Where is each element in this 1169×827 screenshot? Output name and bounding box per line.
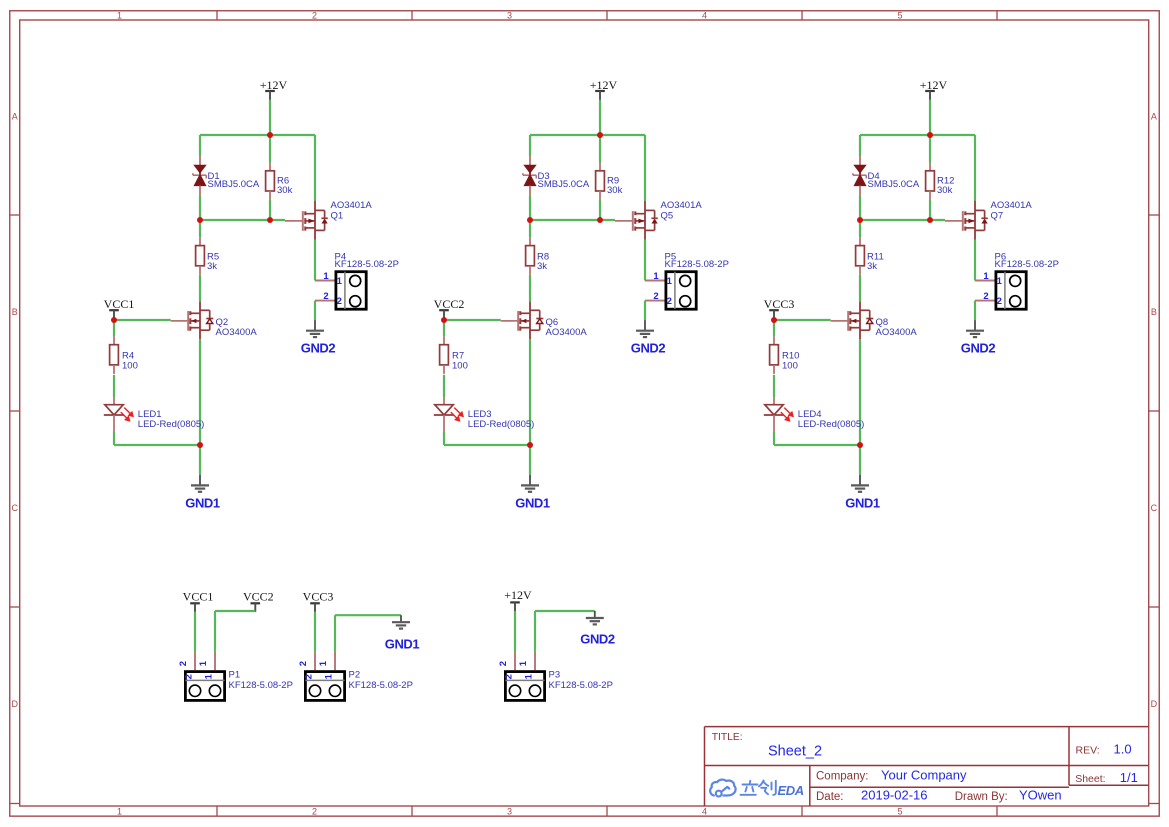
- svg-text:2: 2: [312, 11, 317, 21]
- svg-text:VCC1: VCC1: [183, 590, 214, 604]
- svg-text:LED-Red(0805): LED-Red(0805): [468, 419, 535, 430]
- svg-text:30k: 30k: [607, 185, 623, 196]
- svg-text:D: D: [1151, 699, 1158, 709]
- svg-text:D: D: [11, 699, 18, 709]
- svg-text:P3: P3: [549, 670, 561, 681]
- svg-text:VCC3: VCC3: [303, 590, 334, 604]
- svg-text:100: 100: [122, 360, 138, 371]
- svg-text:Q7: Q7: [991, 210, 1004, 221]
- svg-text:P1: P1: [229, 670, 241, 681]
- svg-text:+12V: +12V: [260, 78, 288, 92]
- svg-text:100: 100: [782, 360, 798, 371]
- svg-text:GND1: GND1: [185, 496, 220, 511]
- svg-text:SMBJ5.0CA: SMBJ5.0CA: [538, 179, 590, 190]
- svg-text:3: 3: [507, 11, 512, 21]
- svg-text:30k: 30k: [277, 185, 293, 196]
- svg-text:GND1: GND1: [845, 496, 880, 511]
- svg-text:5: 5: [897, 11, 902, 21]
- svg-text:Q1: Q1: [331, 210, 344, 221]
- svg-text:3k: 3k: [867, 261, 877, 272]
- svg-text:AO3401A: AO3401A: [661, 200, 703, 211]
- svg-text:EDA: EDA: [778, 783, 804, 798]
- svg-text:GND1: GND1: [385, 636, 420, 651]
- svg-text:AO3400A: AO3400A: [216, 327, 258, 338]
- svg-text:B: B: [1151, 307, 1157, 317]
- svg-text:Drawn By:: Drawn By:: [955, 791, 1008, 803]
- svg-text:4: 4: [702, 807, 707, 817]
- svg-text:AO3400A: AO3400A: [876, 327, 918, 338]
- svg-text:Company:: Company:: [816, 771, 868, 783]
- svg-text:VCC1: VCC1: [104, 297, 135, 311]
- svg-text:GND2: GND2: [301, 341, 336, 356]
- svg-text:LED-Red(0805): LED-Red(0805): [138, 419, 205, 430]
- svg-text:P2: P2: [349, 670, 361, 681]
- svg-text:2: 2: [312, 807, 317, 817]
- svg-text:GND2: GND2: [961, 341, 996, 356]
- svg-text:TITLE:: TITLE:: [712, 732, 743, 743]
- svg-text:100: 100: [452, 360, 468, 371]
- svg-text:GND2: GND2: [580, 631, 615, 646]
- svg-text:+12V: +12V: [590, 78, 618, 92]
- svg-text:AO3400A: AO3400A: [546, 327, 588, 338]
- svg-text:SMBJ5.0CA: SMBJ5.0CA: [208, 179, 260, 190]
- svg-text:+12V: +12V: [920, 78, 948, 92]
- svg-text:1.0: 1.0: [1114, 742, 1132, 757]
- svg-text:VCC2: VCC2: [434, 297, 465, 311]
- svg-text:AO3401A: AO3401A: [331, 200, 373, 211]
- svg-text:A: A: [12, 112, 18, 122]
- svg-text:Your Company: Your Company: [881, 768, 967, 783]
- svg-text:VCC3: VCC3: [764, 297, 795, 311]
- svg-text:30k: 30k: [937, 185, 953, 196]
- svg-text:3k: 3k: [207, 261, 217, 272]
- svg-text:KF128-5.08-2P: KF128-5.08-2P: [665, 259, 729, 270]
- svg-text:GND2: GND2: [631, 341, 666, 356]
- svg-text:B: B: [12, 307, 18, 317]
- svg-text:Sheet:: Sheet:: [1075, 773, 1105, 785]
- svg-text:AO3401A: AO3401A: [991, 200, 1033, 211]
- svg-text:+12V: +12V: [504, 588, 532, 602]
- svg-text:1: 1: [117, 11, 122, 21]
- svg-text:REV:: REV:: [1076, 745, 1100, 757]
- svg-text:VCC2: VCC2: [243, 590, 274, 604]
- svg-text:5: 5: [897, 807, 902, 817]
- svg-text:C: C: [1151, 503, 1158, 513]
- svg-text:KF128-5.08-2P: KF128-5.08-2P: [229, 680, 293, 691]
- svg-text:LED-Red(0805): LED-Red(0805): [798, 419, 865, 430]
- svg-text:Date:: Date:: [816, 791, 844, 803]
- svg-text:3k: 3k: [537, 261, 547, 272]
- svg-text:Sheet_2: Sheet_2: [768, 744, 822, 760]
- svg-text:1: 1: [117, 807, 122, 817]
- svg-text:A: A: [1151, 112, 1157, 122]
- svg-text:KF128-5.08-2P: KF128-5.08-2P: [335, 259, 399, 270]
- svg-text:KF128-5.08-2P: KF128-5.08-2P: [995, 259, 1059, 270]
- svg-text:KF128-5.08-2P: KF128-5.08-2P: [349, 680, 413, 691]
- svg-text:Q5: Q5: [661, 210, 674, 221]
- svg-text:C: C: [11, 503, 18, 513]
- svg-text:GND1: GND1: [515, 496, 550, 511]
- svg-text:3: 3: [507, 807, 512, 817]
- svg-text:YOwen: YOwen: [1019, 788, 1062, 803]
- svg-text:SMBJ5.0CA: SMBJ5.0CA: [868, 179, 920, 190]
- svg-text:4: 4: [702, 11, 707, 21]
- svg-text:1/1: 1/1: [1120, 770, 1138, 785]
- svg-text:KF128-5.08-2P: KF128-5.08-2P: [549, 680, 613, 691]
- svg-text:2019-02-16: 2019-02-16: [861, 788, 928, 803]
